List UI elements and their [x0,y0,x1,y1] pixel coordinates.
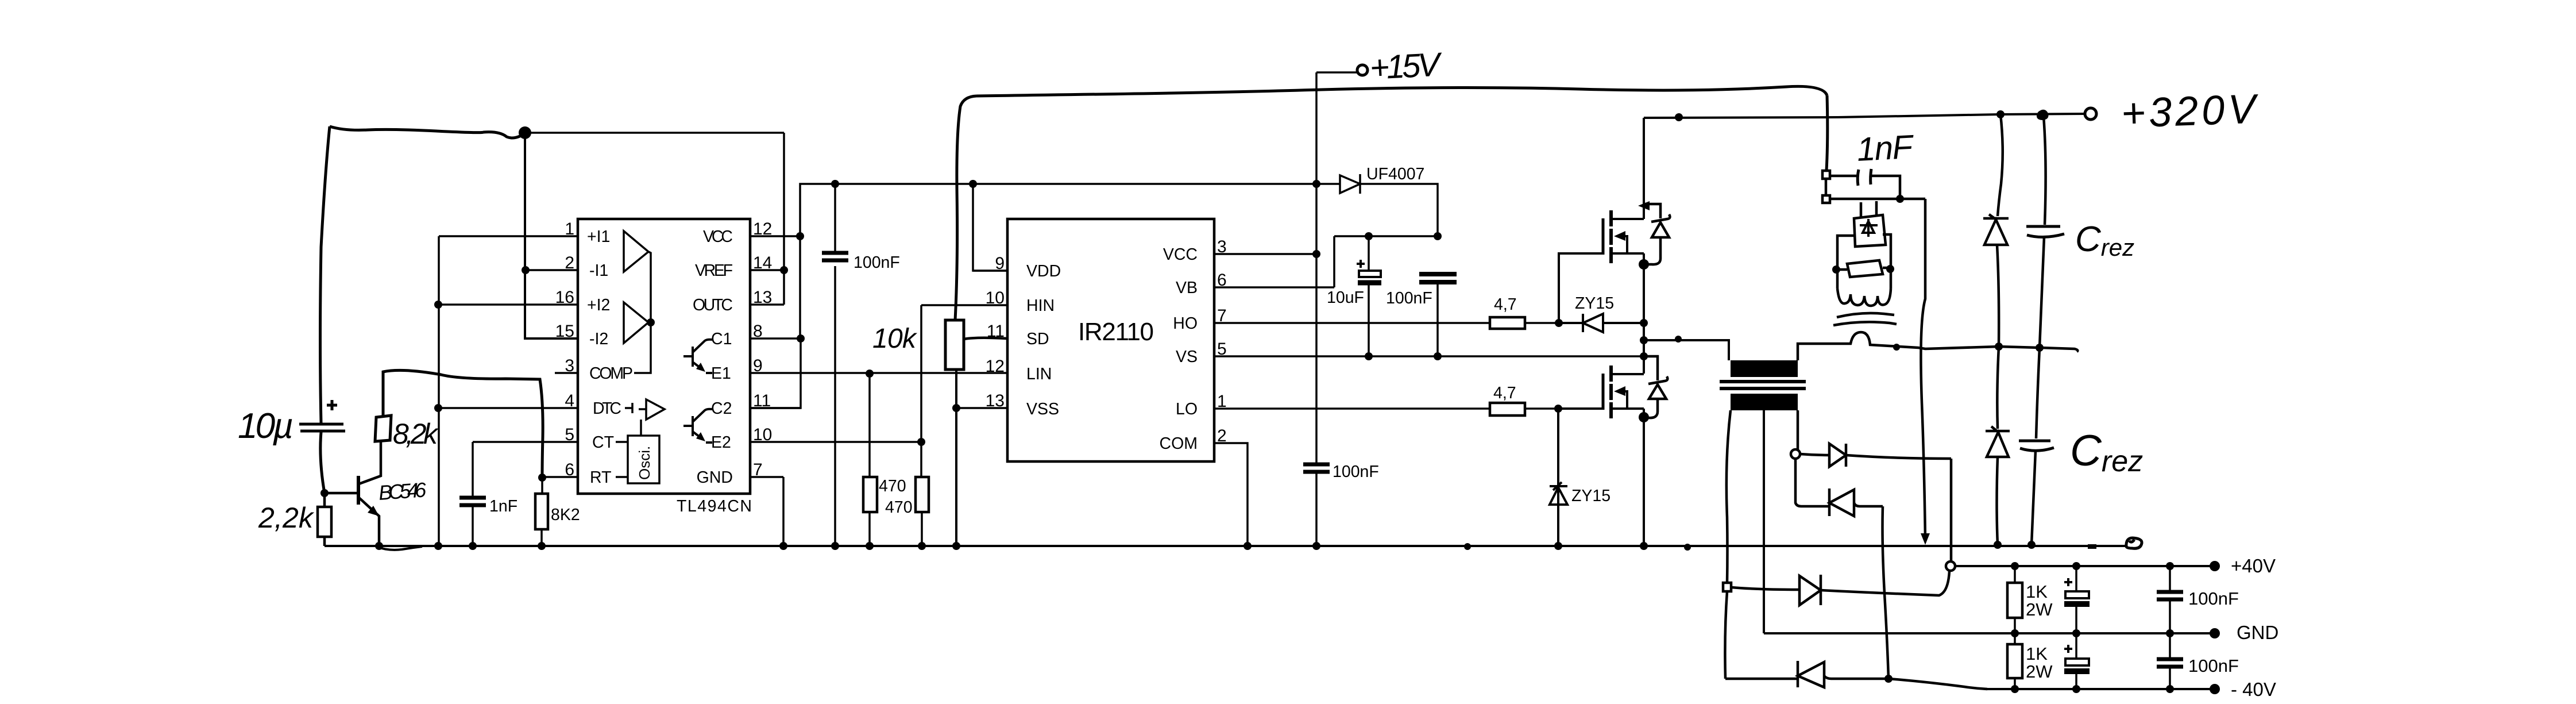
junction DTC [434,404,442,412]
wire gate node to Q4 gate [1559,253,1602,323]
pin 1 LO lead [1214,407,1490,410]
svg-text:VS: VS [1176,348,1198,366]
wire 10u bottom to base node [320,432,325,493]
wire VDD up to VCC rail [973,184,1007,271]
junction ground 470 first [866,542,874,550]
wire D3 cathode to +40V circle [1821,571,1949,595]
junction mid rail small dash [1893,344,1900,351]
capacitor C rez upper lead bottom [2040,237,2044,348]
svg-text:HIN: HIN [1026,297,1055,315]
junction GND elco upper [2072,629,2080,637]
pin 2 -I1 lead [526,269,578,271]
ground rail thick dash [2088,544,2096,549]
svg-text:SD: SD [1026,330,1049,348]
svg-text:13: 13 [753,288,772,307]
svg-text:1K: 1K [2026,582,2048,602]
Q3 emitter lead [359,498,379,546]
junction 320 rail clamp diode [1996,110,2005,118]
junction -I1 [522,266,530,274]
transformer T1 primary winding block [1731,360,1798,377]
wire VCC rail y320 [800,184,1340,236]
wire UF4007 cathode to bootstrap node [1360,184,1438,236]
svg-text:5: 5 [565,425,574,444]
svg-text:100nF: 100nF [2188,588,2239,609]
svg-text:2: 2 [1217,426,1227,445]
transistor Q1 internal [683,340,712,373]
junction VS 10uF [1365,352,1373,360]
node GND terminal [2210,628,2220,638]
junction small on midpoint wire [1675,336,1682,343]
wire hand-drawn +15V rail [976,86,1827,96]
svg-text:+320V: +320V [2121,86,2260,137]
diode D1 rectifier lead [1795,459,1829,506]
node snubber terminal square A [1822,171,1830,179]
svg-text:14: 14 [753,253,772,272]
wire snubber resistor leads [1837,268,1891,270]
junction 320 rail small [1675,113,1683,121]
junction +40V 100nF [2166,562,2174,570]
wire snubber node B horizontal [1830,198,1925,201]
node snubber terminal square B [1822,195,1830,203]
pin 6 VB lead [1214,286,1334,288]
diode D1 [1829,444,1846,467]
svg-text:1nF: 1nF [489,497,517,516]
wire VB up to bootstrap node [1333,236,1335,287]
capacitor C 100nF out upper plates [2157,592,2183,599]
junction E1/LIN 470 [866,370,874,378]
Q5 channel bar dashed [1609,366,1613,418]
svg-text:+40V: +40V [2231,555,2276,576]
Q2 emitter arrow [696,432,705,441]
svg-text:LO: LO [1176,400,1198,418]
svg-text:UF4007: UF4007 [1366,165,1424,183]
junction bootstrap 100nF [1434,232,1442,240]
junction ground below +I vertical [434,542,442,550]
Q3 collector lead [359,441,381,484]
wire 1nF snubber right lead [1871,176,1900,199]
diode D3 [1799,575,1821,605]
capacitor C elco upper plus [2064,578,2072,586]
wire D1 cathode to +40V corner [1846,455,1951,562]
junction C1 [797,334,805,343]
Q4 drain arrow mark [1638,201,1650,210]
wire -40V rail [1987,688,2215,690]
diode D UF4007 [1340,174,1360,194]
svg-text:DTC: DTC [593,399,621,418]
svg-text:100nF: 100nF [2188,656,2239,676]
wire secondary left square down to D4 [1725,591,1727,679]
svg-text:TL494CN: TL494CN [677,497,752,516]
junction ground Q5 source [1640,542,1648,550]
junction ground Crez lower [2027,541,2036,549]
svg-text:ZY15: ZY15 [1571,487,1611,505]
op-amp U1 TL494CN body [578,219,750,494]
wire +I1/+I2 vertical to ground [438,236,440,546]
wire snubber squares link [1825,179,1828,195]
wire top node down to -I1 and -I2 [525,133,578,338]
diode D snubber symbol inside [1860,219,1878,237]
svg-text:GND: GND [2237,622,2278,643]
junction VSS [952,404,960,412]
capacitor C 1nF lead top [472,442,474,496]
junction ground pot/VSS [952,542,960,550]
transistor Q5 lower MOSFET gate bar [1602,374,1605,410]
pin 9 E1 lead wire to LIN [750,372,1007,374]
resistor R 1K 2W lower body [2007,644,2022,678]
svg-text:11: 11 [987,322,1005,341]
svg-text:1nF: 1nF [1856,128,1915,168]
svg-text:100nF: 100nF [853,253,900,272]
resistor R 2,2k body [318,507,331,537]
error amp 1 triangle [624,231,648,272]
capacitor C 10uF top lead [1368,236,1370,271]
junction snubber resistor right [1886,265,1894,273]
wire HIN to E2 vertical [920,305,922,442]
wire E1 node to 470 to ground [868,374,871,546]
capacitor C 100nF boot plates [1419,274,1457,282]
svg-text:5: 5 [1217,340,1227,359]
svg-text:COMP: COMP [589,364,633,383]
wire secondary center tap down [1763,410,1765,633]
oscillator box [628,436,659,483]
svg-text:6: 6 [1217,271,1227,290]
junction ground ZY15 low [1554,542,1562,550]
node +40V terminal [2210,561,2220,571]
svg-text:+I2: +I2 [587,296,610,314]
svg-text:100nF: 100nF [1386,289,1432,307]
junction snubber resistor left [1832,266,1840,274]
pin 9 VDD lead [973,270,1007,272]
svg-text:VREF: VREF [695,261,733,280]
svg-text:4,7: 4,7 [1494,295,1517,314]
svg-text:12: 12 [986,357,1005,376]
svg-text:BC546: BC546 [378,478,428,505]
junction GND 1K upper [2011,629,2019,637]
ground rail primary [325,545,2126,547]
svg-text:VDD: VDD [1026,262,1061,280]
Q4 drain lead [1611,118,1644,219]
wire +320V rail [1644,114,2085,118]
svg-text:IR2110: IR2110 [1078,318,1154,346]
wire gate node low to Q5 gate [1558,407,1602,410]
wire hand-drawn loop left drop to 10u cap [320,126,330,423]
capacitor C 1nF plates [459,498,486,505]
resistor R 4,7 gate low body [1490,403,1525,416]
Q3 emitter arrow [368,506,379,516]
junction ground BC546 emitter [375,542,383,550]
junction amp2 output [647,318,655,326]
pin 8 C1 lead [750,337,801,340]
svg-text:VCC: VCC [1163,245,1198,264]
pin 1 +I1 lead [439,235,578,237]
pin 13 OUTC lead [750,303,784,306]
junction +40V 1K [2011,562,2019,570]
junction +40V elco [2072,562,2080,570]
svg-text:C1: C1 [711,330,732,348]
junction VS pin line [1640,352,1648,360]
svg-text:3: 3 [565,356,574,375]
pin 10 E2 lead [750,441,921,443]
wire 4,7 low to gate node [1525,407,1558,410]
node +40V start circle [1946,561,1955,571]
junction ground 100nF [831,542,839,550]
capacitor C 100nF out upper leads [2169,566,2171,633]
potentiometer wiper to SD [964,338,1007,339]
wire GND pin7 drop to ground rail [782,477,785,546]
transformer T1 secondary winding block [1731,394,1798,410]
junction Q4 source diode [1639,259,1649,270]
wire hand-drawn feedback loop top [330,126,525,138]
resistor R snubber hand body [1847,260,1883,277]
capacitor C 1nF lead bottom [472,507,474,546]
potentiometer 10k body [945,320,964,370]
svg-text:E1: E1 [711,364,731,383]
svg-text:E2: E2 [711,433,731,452]
junction D2/D4 [1884,675,1893,683]
svg-text:1K: 1K [2026,644,2048,664]
transistor Q3 BC546 base bar [357,476,360,505]
wire E2 node to 470 to ground [921,442,922,546]
resistor R 470 second body [916,477,929,512]
wire secondary right lead down [1797,410,1799,449]
diode D clamp upper [1983,214,2009,245]
error amp 2 triangle [624,302,648,343]
capacitor 10u plates [299,424,345,431]
capacitor C 100nF out lower leads [2169,633,2171,689]
junction gate node low [1554,405,1562,413]
Q5 source lead [1611,409,1644,546]
junction blob top node [519,126,531,139]
junction ground small blob B [1684,544,1691,551]
svg-text:9: 9 [753,356,763,375]
wire secondary left lead down [1727,410,1731,583]
svg-text:16: 16 [555,288,574,307]
wire pot top to +15V hand line [955,96,976,320]
capacitor C rez lower plates [2019,441,2054,451]
capacitor C 100nF Vcc bottom lead [1315,474,1318,546]
wire D4 anode to -40V rail [1824,676,1987,689]
capacitor C 1nF snubber left lead [1830,175,1857,178]
Q3 base lead [325,492,358,495]
junction 320 rail Crez blob [2038,111,2048,119]
aux winding loop hand-drawn [1837,234,1891,306]
junction VREF [780,266,788,274]
capacitor C 100nF Vcc plates [1303,464,1330,472]
junction ground 8K2 [538,542,546,550]
wire 4,7 high to gate node [1524,322,1559,324]
junction ground 470 second [918,542,926,550]
svg-text:10uF: 10uF [1327,288,1364,307]
wire D2 anode right and down to D4 line [1854,503,1888,679]
node secondary right circle terminal [1791,449,1800,459]
ground rail hand overdraw dip [376,547,422,550]
wire snubber drop from +15V line [1826,95,1828,171]
wire CT into oscillator [616,441,628,443]
svg-text:8: 8 [753,322,763,341]
capacitor C elco lower plus [2064,645,2072,653]
junction snubber node B right [1896,195,1904,203]
wire VCC vertical to C1/C2 [750,236,801,408]
svg-text:10µ: 10µ [238,406,293,446]
svg-text:100nF: 100nF [1333,463,1379,481]
pin 12 VCC lead [750,235,800,237]
wire OUTC/VREF vertical [783,133,785,305]
capacitor C rez upper lead top [2044,116,2046,225]
junction RT node [538,474,546,482]
pin 14 VREF lead [750,269,784,271]
capacitor C 10uF plates [1359,271,1381,277]
svg-text:VCC: VCC [703,228,733,246]
svg-text:2: 2 [565,253,574,272]
svg-text:COM: COM [1160,434,1198,453]
junction ground clamp lower [1994,541,2002,549]
junction ground COM [1243,542,1252,550]
junction base node [320,489,329,497]
pin 4 DTC lead [438,407,578,409]
node +320V terminal circle [2085,108,2096,120]
wire GND rail [1764,632,2215,634]
junction -40V elco [2072,685,2080,693]
svg-text:6: 6 [565,460,574,479]
svg-text:10: 10 [753,425,772,444]
transistor Q4 upper MOSFET gate bar [1602,218,1605,255]
junction VS source node [1640,319,1648,327]
svg-text:GND: GND [697,468,733,487]
wire +15V vertical to VCC net [1315,72,1318,463]
wire 1K lower leads [2014,633,2016,689]
capacitor C elco upper plates [2065,591,2089,598]
capacitor C elco lower plates [2065,659,2089,665]
wire +40V rail [1955,565,2215,567]
svg-text:LIN: LIN [1026,365,1052,383]
diode D clamp lower lead bottom [1997,457,1998,545]
svg-text:12: 12 [753,220,772,238]
capacitor C rez lower lead top [2036,348,2040,438]
wire ZY15 high to source node [1559,322,1644,324]
svg-text:1: 1 [1217,392,1227,411]
junction mid rail Crez [2036,344,2044,352]
svg-text:470: 470 [879,477,906,495]
junction ground small blob A [1464,543,1471,550]
snubber drop arrowhead [1921,533,1930,545]
svg-text:8,2k: 8,2k [393,418,439,450]
junction rail VDD [969,180,977,188]
svg-text:2W: 2W [2026,599,2053,620]
svg-text:OUTC: OUTC [693,296,733,314]
aux winding core dashes [1833,313,1897,325]
Q4 body arrow lead [1617,236,1627,253]
svg-text:+15V: +15V [1369,45,1444,87]
wire +15V terminal lead [1316,71,1357,74]
wire bootstrap node horizontal [1334,235,1438,237]
Q4 source lead [1611,253,1644,374]
wire amp outputs to COMP [634,252,651,373]
junction Q5 source diode [1639,412,1649,422]
pin 5 CT lead [473,441,578,443]
svg-text:-I2: -I2 [589,330,608,348]
wire RT node through 8K2 to ground [542,478,542,546]
diode D snubber box [1854,201,1886,247]
diode ZY15 low zener [1550,409,1567,546]
wire midpoint to transformer primary [1644,340,1729,360]
svg-text:7: 7 [1217,306,1227,325]
pin 15 -I2 lead [526,337,578,340]
junction gate node high [1555,319,1563,327]
svg-text:CT: CT [592,433,614,452]
junction IR2110 VCC [1312,250,1320,258]
svg-text:3: 3 [1217,237,1227,256]
diode D body lower hand-drawn [1644,356,1667,418]
Q5 body arrow lead [1617,391,1627,409]
diode ZY15 high zener [1583,314,1603,332]
svg-text:-I1: -I1 [589,261,608,280]
diode D clamp upper lead bottom [1997,245,1999,347]
capacitor C elco upper leads [2075,566,2077,633]
junction +I2 [434,301,442,309]
svg-text:HO: HO [1173,314,1198,333]
diode D2 [1829,488,1854,516]
junction GND 100nF upper [2166,629,2174,637]
capacitor C rez lower lead bottom [2032,451,2036,545]
dead-time comparator triangle [646,399,665,420]
diode D clamp lower [1986,426,2010,457]
Q4 channel bar dashed [1609,210,1613,263]
label + of 10u [327,400,337,410]
capacitor C elco lower leads [2075,633,2077,689]
capacitor C 100nF out lower plates [2157,659,2183,667]
junction -40V 1K [2011,685,2019,693]
wire RT into oscillator [616,476,628,478]
svg-text:470: 470 [885,498,913,517]
pin 3 VCC lead [1214,253,1316,255]
resistor R 4,7 gate high body [1490,317,1525,329]
node VREF/OUTC feedback top wire [525,132,784,134]
svg-text:ZY15: ZY15 [1575,294,1614,313]
node secondary left square terminal [1723,583,1731,591]
pin 7 GND lead [750,476,783,478]
capacitor C 100nF boot bottom lead [1436,284,1439,356]
node ground rail end loop terminal [2126,538,2142,548]
capacitor C 100nF decoupling lead [834,184,836,546]
pin 6 RT lead [542,476,578,478]
junction mid rail clamp [1995,343,2003,351]
wire DTC triangle to oscillator [639,409,646,436]
pin 11 C2 lead [750,407,801,409]
svg-text:8K2: 8K2 [551,506,580,524]
svg-text:13: 13 [986,391,1005,410]
junction VS 100nF [1434,352,1442,360]
svg-text:2,2k: 2,2k [258,502,315,534]
node -40V terminal [2210,684,2220,694]
pin 5 VS lead [1214,355,1644,357]
op-amp U2 IR2110 body [1007,219,1214,461]
capacitor C 1nF snubber plates [1857,169,1871,186]
junction bootstrap 10uF [1365,232,1373,240]
resistor R 470 first body [863,477,877,512]
svg-text:7: 7 [753,460,763,479]
diode D4 [1725,661,1824,687]
resistor R 8K2 body [535,494,548,529]
svg-text:Osci.: Osci. [636,446,653,480]
junction midpoint to transformer [1640,336,1648,344]
svg-text:VSS: VSS [1026,400,1059,418]
svg-text:- 40V: - 40V [2231,679,2276,700]
pin 16 +I2 lead [438,303,578,306]
pin 7 HO lead [1214,322,1490,324]
pin 3 COMP stub [555,372,578,374]
pin 2 COM lead [1214,443,1248,546]
capacitor C 10uF bottom lead [1368,285,1370,356]
